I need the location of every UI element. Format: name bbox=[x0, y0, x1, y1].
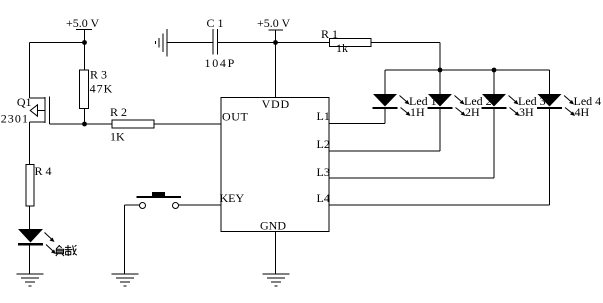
svg-text:2H: 2H bbox=[465, 105, 480, 119]
svg-text:+5.0 V: +5.0 V bbox=[66, 16, 100, 30]
diode Led1 bbox=[373, 94, 398, 108]
Led1 arrows bbox=[400, 96, 411, 117]
diode Led4 bbox=[537, 94, 562, 108]
ground top (left of C1), rotated bbox=[156, 29, 168, 57]
wire Q1 source to R4 bbox=[29, 122, 31, 165]
wire left rail down to Q1 bbox=[29, 43, 31, 99]
resistor R1 bbox=[329, 39, 371, 47]
LED load diode bbox=[18, 229, 43, 244]
wire R4 to load LED bbox=[29, 206, 31, 229]
svg-text:R 1: R 1 bbox=[321, 27, 338, 41]
wire Led1 cathode bbox=[384, 109, 386, 124]
svg-text:1k: 1k bbox=[336, 41, 348, 55]
svg-text:R 3: R 3 bbox=[90, 67, 107, 81]
Led2 arrows bbox=[455, 96, 466, 117]
wire Led4 cathode bbox=[549, 109, 551, 205]
wire Led1 anode bbox=[384, 70, 386, 94]
wire VDD bbox=[275, 43, 277, 98]
junction node rail/Led3 bbox=[492, 68, 497, 73]
wire load LED to ground bbox=[29, 244, 31, 274]
wire L4 pin bbox=[329, 204, 550, 206]
svg-text:OUT: OUT bbox=[222, 110, 249, 124]
wire KEY pin bbox=[179, 204, 222, 206]
svg-text:VDD: VDD bbox=[262, 97, 290, 111]
wire R2 to OUT pin bbox=[154, 123, 221, 125]
svg-text:4H: 4H bbox=[575, 105, 590, 119]
wire L2 pin bbox=[329, 150, 440, 152]
junction node gate/R2 bbox=[82, 122, 87, 127]
svg-text:47K: 47K bbox=[90, 81, 114, 95]
resistor R2 bbox=[112, 120, 154, 128]
wire Led2 cathode bbox=[439, 109, 441, 151]
Led4 arrows bbox=[564, 96, 575, 117]
wire Led2 anode bbox=[439, 70, 441, 94]
wire Q1 gate to R2 bbox=[50, 123, 112, 125]
wire L1 pin bbox=[329, 123, 385, 125]
power +5.0V top-left bbox=[76, 30, 92, 43]
svg-text:2301: 2301 bbox=[1, 111, 29, 125]
ground under load bbox=[17, 274, 44, 286]
svg-text:104P: 104P bbox=[205, 56, 236, 70]
wire R1 to LED rail bbox=[371, 43, 440, 71]
wire Led3 cathode bbox=[493, 109, 495, 178]
capacitor C1 bbox=[213, 29, 218, 55]
wire R3 to gate node bbox=[84, 109, 86, 125]
svg-text:Q1: Q1 bbox=[17, 95, 32, 109]
svg-text:GND: GND bbox=[260, 219, 286, 233]
wire top-left rail bbox=[30, 42, 85, 44]
wire Led3 anode bbox=[493, 70, 495, 94]
diode Led3 bbox=[482, 94, 507, 108]
chip U1 bbox=[221, 98, 329, 232]
svg-text:3H: 3H bbox=[519, 105, 534, 119]
wire ground to C1 bbox=[167, 42, 213, 44]
svg-text:1K: 1K bbox=[110, 130, 125, 144]
svg-text:+5.0 V: +5.0 V bbox=[257, 16, 291, 30]
wire GND pin bbox=[275, 232, 277, 275]
wire button to ground bbox=[125, 205, 140, 274]
wire rail to R3 bbox=[84, 43, 86, 71]
diode Led2 bbox=[428, 94, 453, 108]
svg-text:L3: L3 bbox=[317, 165, 330, 179]
svg-text:R 4: R 4 bbox=[35, 164, 52, 178]
wire LED anode rail bbox=[385, 69, 550, 71]
resistor R3 bbox=[80, 70, 89, 109]
wire Led4 anode bbox=[549, 70, 551, 94]
ground below button bbox=[112, 274, 139, 286]
junction node +5V/VDD bbox=[273, 40, 278, 45]
power +5.0V top-center bbox=[269, 30, 284, 43]
svg-text:L1: L1 bbox=[317, 109, 330, 123]
junction node below +5.0V top-left bbox=[82, 40, 87, 45]
svg-text:L2: L2 bbox=[317, 137, 330, 151]
svg-text:C 1: C 1 bbox=[207, 16, 224, 30]
switch KEY pushbutton bbox=[137, 192, 182, 209]
svg-text:1H: 1H bbox=[410, 105, 425, 119]
resistor R4 bbox=[26, 165, 34, 207]
junction node rail/Led2 bbox=[438, 68, 443, 73]
wire C1 to +5V node bbox=[218, 42, 331, 44]
Led3 arrows bbox=[509, 96, 520, 117]
ground below chip bbox=[263, 274, 290, 286]
transistor Q1 MOSFET 2301 bbox=[30, 97, 50, 125]
label 负载 (load) drawn as strokes bbox=[56, 245, 77, 256]
wire L3 pin bbox=[329, 177, 494, 179]
svg-text:KEY: KEY bbox=[220, 191, 245, 205]
svg-text:L4: L4 bbox=[317, 191, 330, 205]
LED load arrows bbox=[45, 233, 57, 255]
svg-text:R 2: R 2 bbox=[110, 105, 127, 119]
